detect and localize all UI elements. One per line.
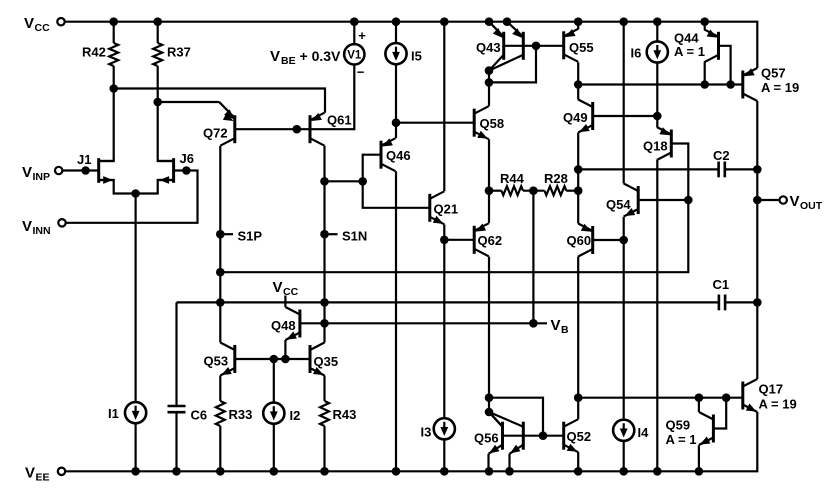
svg-text:+: + xyxy=(358,28,366,43)
svg-text:I4: I4 xyxy=(638,425,650,440)
svg-text:C2: C2 xyxy=(713,148,730,163)
svg-text:Q53: Q53 xyxy=(204,354,229,369)
svg-text:S1N: S1N xyxy=(342,229,367,244)
svg-text:A = 19: A = 19 xyxy=(761,80,799,95)
svg-text:Q60: Q60 xyxy=(567,233,592,248)
svg-text:S1P: S1P xyxy=(238,229,263,244)
svg-text:Q55: Q55 xyxy=(569,40,594,55)
svg-text:Q62: Q62 xyxy=(478,233,503,248)
svg-text:A = 1: A = 1 xyxy=(666,432,697,447)
svg-text:BE: BE xyxy=(281,55,296,67)
svg-text:R37: R37 xyxy=(167,45,191,60)
svg-text:Q49: Q49 xyxy=(563,110,588,125)
svg-text:Q56: Q56 xyxy=(474,431,499,446)
svg-text:I1: I1 xyxy=(108,406,119,421)
svg-text:V: V xyxy=(273,279,283,296)
svg-text:R44: R44 xyxy=(500,171,525,186)
svg-text:A = 1: A = 1 xyxy=(674,44,705,59)
svg-text:V: V xyxy=(24,15,34,32)
svg-text:OUT: OUT xyxy=(800,200,823,212)
svg-text:Q46: Q46 xyxy=(386,148,411,163)
svg-text:Q35: Q35 xyxy=(314,354,339,369)
svg-text:+ 0.3V: + 0.3V xyxy=(300,48,342,64)
svg-text:CC: CC xyxy=(35,22,51,34)
svg-text:J1: J1 xyxy=(77,152,91,167)
svg-text:I5: I5 xyxy=(411,49,422,64)
svg-text:V1: V1 xyxy=(347,50,362,62)
svg-text:Q54: Q54 xyxy=(606,197,631,212)
svg-text:R42: R42 xyxy=(82,45,106,60)
svg-text:V: V xyxy=(790,193,800,210)
svg-text:Q57: Q57 xyxy=(761,66,786,81)
svg-text:Q72: Q72 xyxy=(203,126,228,141)
svg-text:C6: C6 xyxy=(191,408,208,423)
svg-text:R28: R28 xyxy=(544,171,568,186)
svg-text:V: V xyxy=(551,317,561,334)
svg-text:CC: CC xyxy=(283,286,299,298)
svg-text:Q43: Q43 xyxy=(476,40,501,55)
svg-text:I2: I2 xyxy=(290,408,301,423)
svg-text:EE: EE xyxy=(36,472,50,484)
svg-text:I3: I3 xyxy=(421,425,432,440)
svg-text:Q52: Q52 xyxy=(567,429,592,444)
svg-text:V: V xyxy=(25,465,35,482)
svg-text:J6: J6 xyxy=(180,151,194,166)
svg-text:V: V xyxy=(22,218,32,235)
svg-text:R33: R33 xyxy=(229,407,253,422)
svg-text:B: B xyxy=(561,324,569,336)
svg-text:Q58: Q58 xyxy=(480,116,505,131)
svg-text:Q21: Q21 xyxy=(434,202,459,217)
svg-text:R43: R43 xyxy=(333,407,357,422)
svg-text:Q18: Q18 xyxy=(643,139,668,154)
svg-text:V: V xyxy=(22,164,32,181)
svg-text:V: V xyxy=(270,48,280,65)
svg-text:Q59: Q59 xyxy=(666,418,691,433)
svg-text:Q48: Q48 xyxy=(271,318,296,333)
svg-text:A = 19: A = 19 xyxy=(759,397,797,412)
svg-text:INP: INP xyxy=(33,171,51,183)
svg-text:INN: INN xyxy=(33,225,51,237)
svg-text:I6: I6 xyxy=(631,46,642,61)
svg-text:Q17: Q17 xyxy=(759,382,784,397)
svg-text:C1: C1 xyxy=(713,277,730,292)
svg-text:−: − xyxy=(357,65,365,80)
svg-text:Q61: Q61 xyxy=(327,113,352,128)
